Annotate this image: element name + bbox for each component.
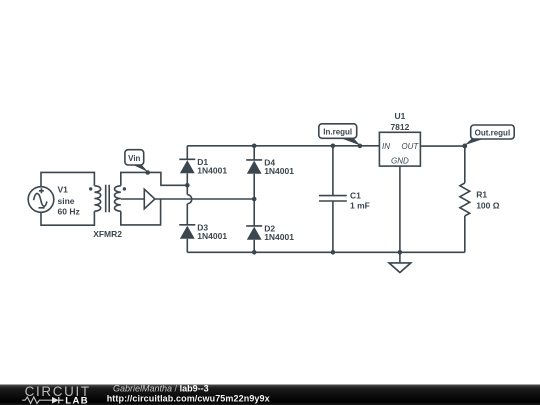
svg-text:C1: C1 [350,190,361,200]
D2 label [264,224,294,243]
probe triangle [144,189,155,209]
svg-text:LAB: LAB [65,395,89,405]
node bottom rail / C1 [331,250,336,255]
footer bar [0,385,540,405]
node OUT / R1 / flag [463,144,468,149]
CircuitLab logo wordmark [25,384,91,399]
svg-text:1N4001: 1N4001 [197,231,227,241]
svg-text:GabrielMantha / lab9--3: GabrielMantha / lab9--3 [113,383,209,393]
transformer XFMR2 [89,185,126,212]
svg-text:1N4001: 1N4001 [264,232,294,242]
wire center tap to probe triangle [121,198,145,200]
svg-text:V1: V1 [58,185,69,195]
svg-text:http://circuitlab.com/cwu75m22: http://circuitlab.com/cwu75m22n9y9x [107,394,270,404]
svg-text:In.regul: In.regul [323,127,352,136]
svg-text:1 mF: 1 mF [350,201,370,211]
wire bottom rail [187,251,465,253]
wire probe to bridge right column [155,198,254,200]
svg-text:IN: IN [382,142,390,151]
diode D1 [179,146,195,195]
wire secondary bottom [121,199,161,225]
voltage source V1 [28,187,54,213]
node junction at bridge right mid [252,197,257,202]
node top rail / C1 [331,144,336,149]
svg-text:sine: sine [58,196,75,206]
wire OUT pin to R1 [420,145,464,147]
diode D4 [246,146,262,199]
D3 label [197,223,227,242]
node top rail / D4 [252,144,257,149]
net flag Out.regul [463,125,515,148]
svg-text:7812: 7812 [390,122,409,132]
net flag In.regul [319,124,362,148]
diode D2 [246,199,262,252]
svg-text:XFMR2: XFMR2 [93,229,122,239]
svg-text:Vin: Vin [128,154,140,163]
CircuitLab logo motif (resistor + diode) [22,395,89,405]
svg-text:1N4001: 1N4001 [197,166,227,176]
svg-text:1N4001: 1N4001 [264,166,294,176]
wire V1 bottom to primary [41,211,94,225]
svg-text:100 Ω: 100 Ω [476,200,500,210]
svg-text:R1: R1 [476,190,487,200]
regulator U1 [379,132,420,166]
svg-text:OUT: OUT [401,142,419,151]
C1 label [350,190,370,210]
ground [389,252,411,272]
wire secondary top to bridge left column [121,172,188,185]
diode D3 [179,204,195,253]
wire V1 top to primary [41,172,94,186]
node junction at bridge left mid [185,183,190,188]
V1 value label [58,185,80,217]
capacitor C1 [319,146,347,253]
wire hop on left column [187,195,192,204]
resistor R1 [460,146,470,252]
svg-text:60 Hz: 60 Hz [58,207,80,217]
svg-text:Out.regul: Out.regul [475,128,511,137]
R1 label [476,190,500,211]
node bottom rail / D2 [252,250,257,255]
D1 label [197,157,227,176]
svg-text:U1: U1 [394,111,405,121]
net flag Vin [125,150,150,175]
node bottom rail / GND pin [398,250,403,255]
wire top rail [187,145,379,147]
wire GND pin [399,166,401,252]
svg-text:GND: GND [391,156,409,165]
U1 label [390,111,409,132]
D4 label [264,158,294,177]
